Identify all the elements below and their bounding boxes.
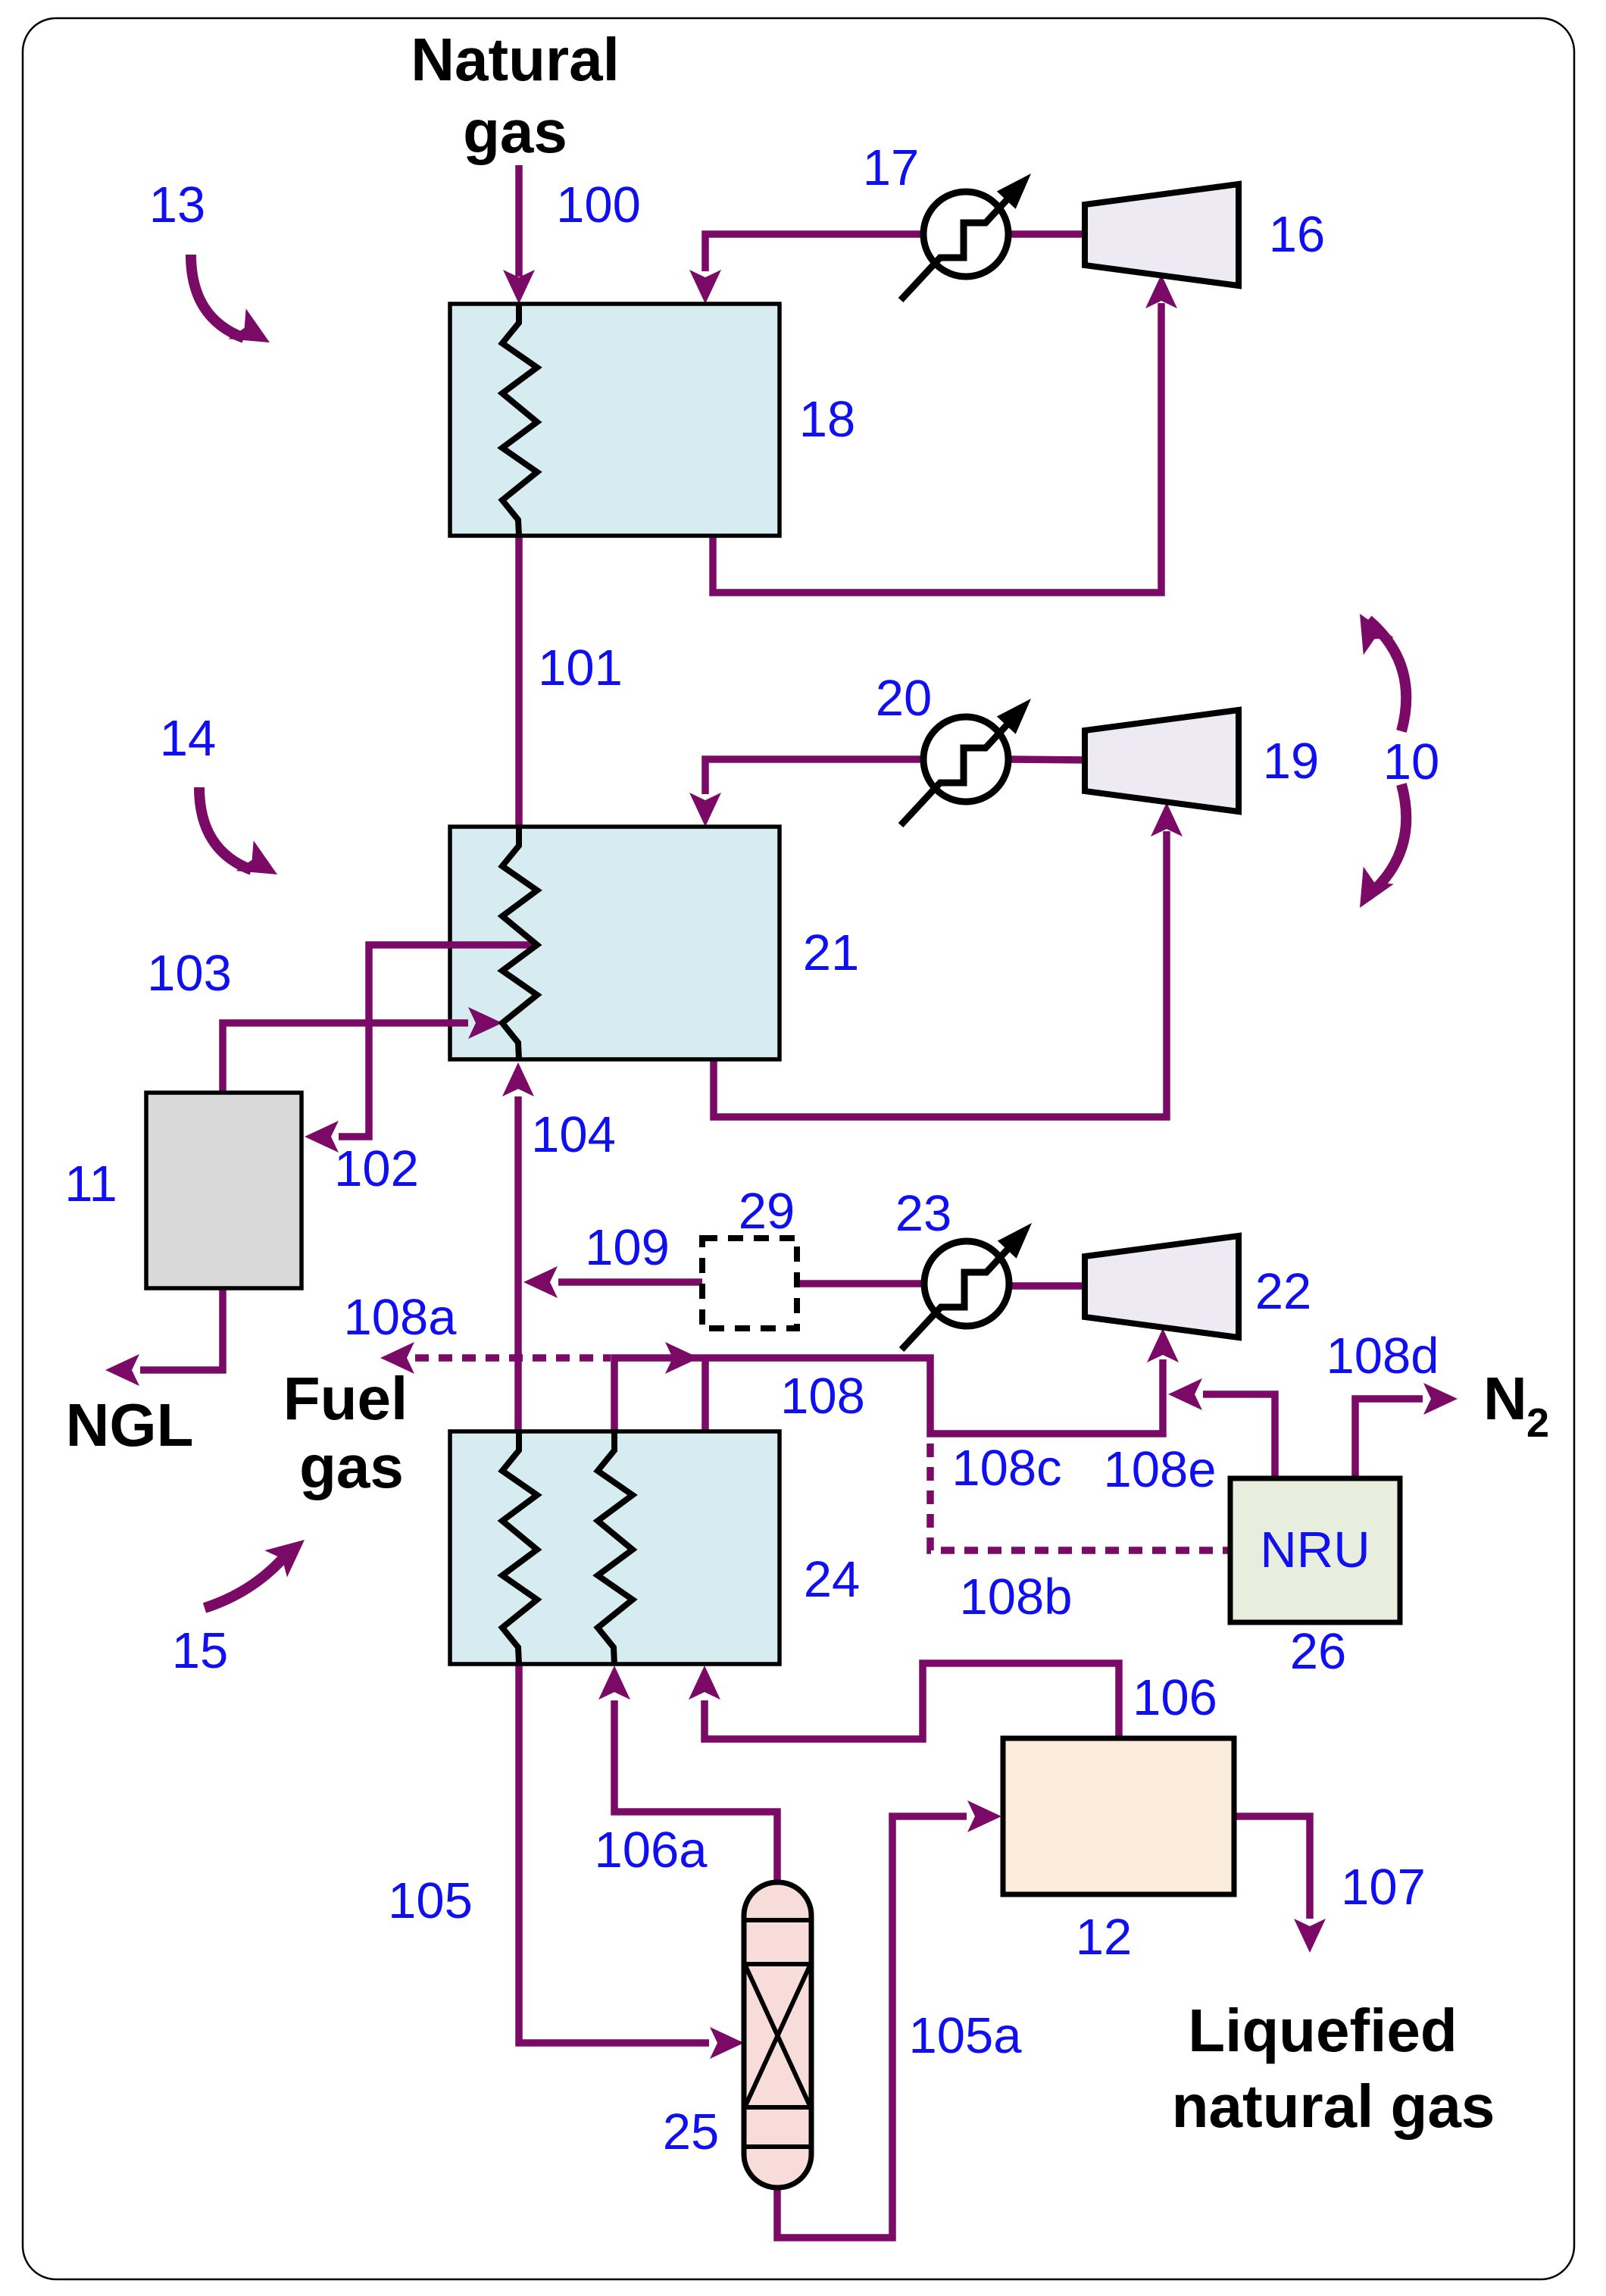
svg-text:25: 25 — [663, 2104, 720, 2160]
svg-text:17: 17 — [863, 139, 920, 196]
expander 19 — [1085, 710, 1239, 812]
wire stream 102 from exchanger 21 to separator 11 — [339, 945, 536, 1137]
svg-text:22: 22 — [1255, 1263, 1312, 1320]
svg-text:20: 20 — [876, 670, 933, 727]
heat exchanger 21 — [450, 827, 780, 1059]
svg-text:108a: 108a — [343, 1289, 457, 1346]
svg-text:2: 2 — [1526, 1400, 1549, 1446]
svg-text:108d: 108d — [1326, 1328, 1439, 1384]
coil in exchanger 21 — [502, 827, 537, 1059]
annotation arrow for label 15 — [205, 1558, 283, 1608]
svg-text:108c: 108c — [951, 1440, 1061, 1497]
column 25 packing X — [745, 1966, 810, 2106]
svg-text:10: 10 — [1383, 734, 1440, 790]
coil in exchanger 18 — [502, 304, 537, 536]
heat exchanger 18 — [450, 304, 780, 536]
svg-text:108: 108 — [780, 1368, 865, 1425]
cooler 23 — [924, 1241, 1009, 1326]
cooler 20 — [923, 717, 1008, 802]
wire stream 105a column 25 bottoms to unit 12 — [777, 1816, 967, 2238]
svg-text:100: 100 — [556, 177, 641, 233]
svg-text:13: 13 — [149, 177, 206, 233]
dashed wire stream 108b to NRU — [930, 1444, 1232, 1550]
wire exchanger 21 outlet to expander 19 suction — [714, 831, 1167, 1117]
svg-text:105a: 105a — [908, 2007, 1022, 2064]
svg-text:23: 23 — [895, 1185, 952, 1242]
wire stream 108 header from exchanger 24 — [614, 1358, 1163, 1434]
wire stream 108d NRU nitrogen vent — [1355, 1399, 1423, 1478]
svg-text:gas: gas — [463, 98, 567, 165]
svg-text:109: 109 — [585, 1219, 670, 1276]
wire stream 108e NRU overhead to compressor 22 — [1203, 1394, 1275, 1478]
svg-text:Liquefied: Liquefied — [1188, 1997, 1458, 2064]
svg-text:26: 26 — [1290, 1623, 1347, 1680]
annotation arc for label 10 — [1368, 620, 1406, 731]
dashed wire stream 108a fuel gas branch — [415, 1354, 611, 1362]
wire stream 100 natural gas feed — [515, 165, 523, 277]
column 25 top distributor line — [744, 1918, 811, 1922]
svg-text:101: 101 — [538, 640, 623, 696]
svg-text:15: 15 — [172, 1622, 229, 1679]
svg-text:N: N — [1483, 1365, 1527, 1432]
wire stream 109 from valve 29 to stream 104 — [558, 1278, 702, 1286]
svg-text:108e: 108e — [1103, 1441, 1216, 1498]
compressor 22 — [1085, 1236, 1239, 1337]
separator 11 — [146, 1093, 302, 1288]
NRU unit 26 — [1230, 1478, 1400, 1622]
wire NGL product from separator 11 bottom — [140, 1287, 223, 1370]
svg-text:natural gas: natural gas — [1172, 2072, 1495, 2140]
svg-text:21: 21 — [803, 924, 860, 981]
annotation arrow for label 14 — [199, 787, 252, 870]
svg-text:18: 18 — [799, 391, 856, 448]
wire stream 106 from unit 12 to exchanger 24 — [705, 1663, 1119, 1740]
svg-text:16: 16 — [1269, 206, 1326, 263]
svg-text:104: 104 — [531, 1106, 616, 1163]
svg-text:106: 106 — [1133, 1669, 1217, 1726]
wire stream 105 exchanger 24 to column 25 — [519, 1663, 709, 2043]
second coil in exchanger 24 — [598, 1431, 633, 1664]
svg-text:gas: gas — [299, 1433, 404, 1500]
svg-text:NGL: NGL — [66, 1391, 194, 1459]
svg-text:11: 11 — [64, 1156, 117, 1212]
subcooler unit 12 — [1003, 1738, 1234, 1894]
column 25 packing top line — [744, 1962, 811, 1966]
valve 29 (dashed box) — [702, 1238, 797, 1328]
expander 16 — [1085, 184, 1239, 286]
svg-text:Natural: Natural — [411, 26, 620, 93]
wire stream 106a column 25 overhead to exchanger 24 — [614, 1700, 777, 1884]
svg-text:Fuel: Fuel — [283, 1365, 408, 1432]
wire cooler 20 to expander 19 — [1008, 759, 1088, 760]
wire stream 107 LNG product from unit 12 — [1234, 1816, 1310, 1919]
wire exchanger 24 shell outlet into header 108 — [701, 1358, 709, 1433]
annotation arrow for label 13 — [191, 255, 244, 338]
column 25 sump line — [744, 2144, 811, 2149]
svg-text:NRU: NRU — [1260, 1522, 1370, 1578]
wire valve 29 to cooler 23 — [797, 1280, 926, 1287]
svg-text:107: 107 — [1341, 1859, 1426, 1916]
column 25 packing bottom line — [744, 2105, 811, 2110]
svg-text:29: 29 — [739, 1183, 795, 1240]
svg-text:106a: 106a — [594, 1822, 708, 1878]
cooler 17 — [923, 192, 1008, 277]
svg-text:103: 103 — [147, 945, 232, 1002]
wire cooler 17 to expander 16 — [1008, 230, 1088, 238]
wire stream 101 exchanger 18 to exchanger 21 — [515, 534, 523, 828]
svg-text:19: 19 — [1263, 733, 1320, 790]
rectifier column 25 — [744, 1882, 811, 2188]
svg-text:105: 105 — [388, 1872, 473, 1929]
svg-text:108b: 108b — [959, 1569, 1072, 1625]
svg-text:102: 102 — [334, 1140, 419, 1197]
wire cooler 23 to compressor 22 — [1008, 1282, 1088, 1290]
first coil in exchanger 24 — [502, 1431, 537, 1664]
heat exchanger 24 — [450, 1431, 780, 1664]
svg-text:14: 14 — [160, 710, 217, 767]
wire stream 104 riser into exchanger 21 — [514, 1096, 522, 1433]
wire loop 14: exchanger 21 top inlet from cooler 20 — [705, 759, 923, 794]
wire exchanger 18 outlet to expander 16 suction — [713, 303, 1161, 593]
wire stream 103 separator 11 overhead to exchanger 21 — [223, 1023, 468, 1094]
svg-text:12: 12 — [1076, 1909, 1133, 1966]
svg-text:24: 24 — [804, 1551, 861, 1608]
wire loop 13: exchanger 18 top inlet from cooler 17 — [705, 234, 923, 271]
